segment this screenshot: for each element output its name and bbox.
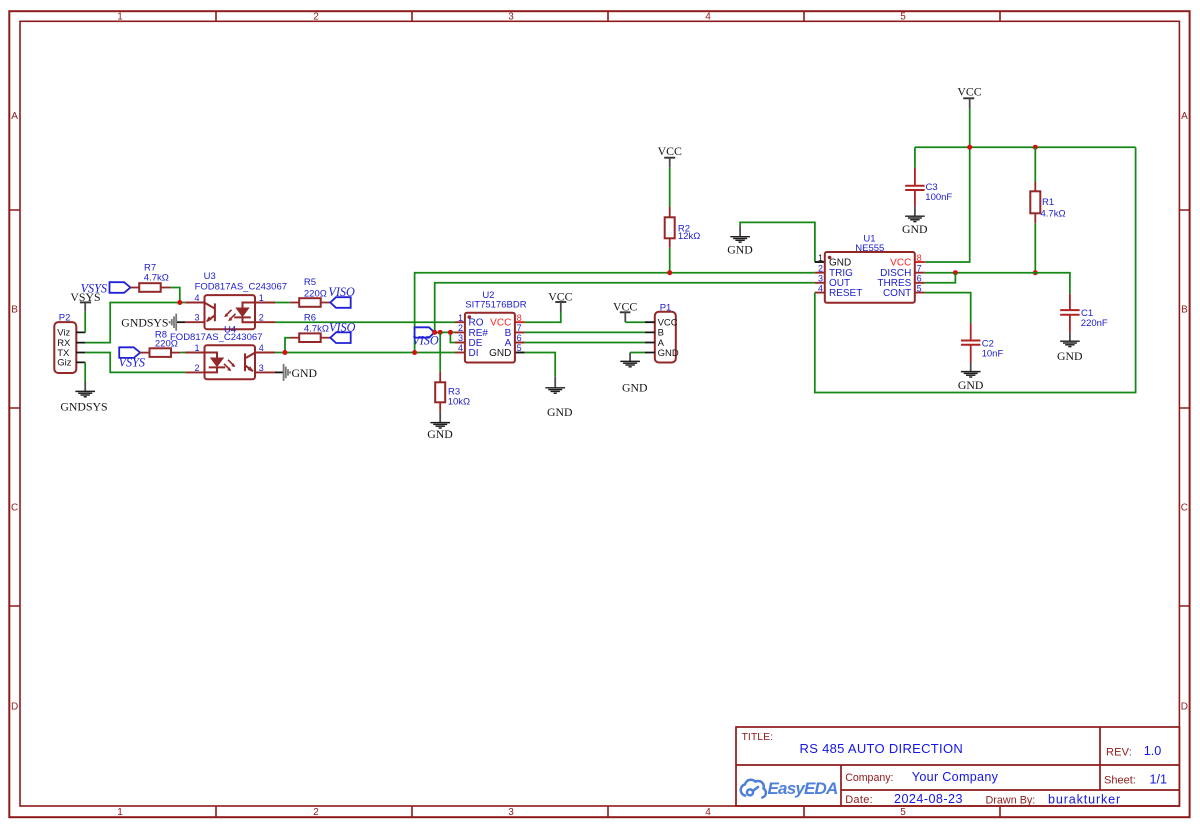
svg-text:5: 5 (517, 343, 522, 353)
svg-text:7: 7 (517, 323, 522, 333)
svg-text:4: 4 (458, 343, 463, 353)
row letters right (1181, 111, 1188, 713)
ground GND below U2 pin5 (545, 377, 573, 419)
wire U2 pin8 to VCC (525, 313, 561, 323)
svg-text:4: 4 (818, 283, 823, 293)
junction node R3 top (438, 330, 443, 335)
svg-text:VCC: VCC (548, 289, 572, 303)
power flag VCC at U2 (548, 289, 572, 312)
ground GND below C2 (958, 362, 984, 392)
wire TX to U4 pin2 (85, 353, 185, 373)
wire RX to node R7/U3 (85, 303, 180, 343)
svg-text:2024-08-23: 2024-08-23 (894, 792, 963, 806)
wire top bus (915, 146, 1136, 148)
wire GND flag to U1 pin1 (740, 222, 815, 262)
net flag VISO at U2 (412, 327, 439, 347)
svg-text:U3: U3 (204, 271, 216, 282)
svg-text:4.7kΩ: 4.7kΩ (1041, 208, 1066, 219)
wire U3 pin1 to R5 (275, 302, 290, 304)
junction node on DI line (412, 350, 417, 355)
power flag VCC top (957, 85, 981, 109)
svg-text:GND: GND (1057, 349, 1083, 363)
svg-text:R1: R1 (1042, 197, 1054, 208)
svg-text:REV:: REV: (1106, 746, 1132, 758)
svg-text:VCC: VCC (613, 299, 637, 313)
wire U4 pin4 node to R6 and DI (275, 338, 415, 353)
wire Giz to ground (84, 362, 86, 381)
svg-text:NE555: NE555 (855, 243, 884, 254)
wire top bus to R1 (1034, 147, 1036, 182)
svg-text:GND: GND (829, 257, 851, 268)
svg-text:GNDSYS: GNDSYS (121, 315, 168, 329)
svg-text:1: 1 (458, 313, 463, 323)
row letters left (11, 111, 18, 713)
wire VCC to P1 (625, 321, 645, 323)
wire node to U3 pin4 (180, 302, 185, 304)
ground flag GNDSYS at U3 pin3 (121, 314, 185, 331)
wire DISCH line to C1 (925, 273, 1070, 294)
wire R1 to DISCH line (1034, 223, 1036, 273)
svg-text:3: 3 (259, 363, 264, 373)
svg-text:B: B (11, 305, 18, 316)
wire RE# node down to R3 (439, 332, 441, 371)
svg-text:SIT75176BDR: SIT75176BDR (465, 299, 526, 310)
wire CONT to C2 (925, 293, 971, 324)
svg-text:GND: GND (292, 366, 318, 380)
svg-text:3: 3 (508, 807, 514, 818)
svg-text:Company:: Company: (845, 772, 893, 784)
wire R8 to U4 pin1 (180, 352, 185, 354)
svg-text:3: 3 (818, 274, 823, 284)
svg-text:3: 3 (508, 12, 514, 23)
svg-text:GND: GND (427, 427, 453, 441)
svg-text:VSYS: VSYS (119, 356, 145, 370)
svg-text:2: 2 (458, 323, 463, 333)
svg-text:4: 4 (259, 343, 264, 353)
svg-text:6: 6 (917, 274, 922, 284)
svg-text:VSYS: VSYS (81, 281, 107, 295)
svg-text:10nF: 10nF (982, 348, 1004, 359)
net flag VSYS at R8 (119, 347, 145, 369)
wire TRIG bus: U1 pin2 elbow down to DI line (415, 273, 815, 353)
svg-text:Sheet:: Sheet: (1104, 775, 1136, 787)
svg-text:RESET: RESET (829, 288, 862, 299)
svg-text:VISO: VISO (328, 285, 355, 299)
power flag VCC at P1 (613, 299, 637, 322)
power flag VSYS above P2 (70, 290, 100, 312)
svg-text:2: 2 (313, 807, 319, 818)
svg-text:1: 1 (194, 343, 199, 353)
svg-text:3: 3 (458, 333, 463, 343)
ground GND below P1 (620, 353, 648, 395)
resistor R2 (665, 207, 675, 248)
svg-text:P1: P1 (660, 302, 672, 313)
wire RESET loop (815, 147, 1136, 392)
svg-text:Date:: Date: (845, 794, 873, 806)
junction node VISO/OUT on RE# (432, 330, 437, 335)
svg-text:1/1: 1/1 (1150, 773, 1168, 787)
resistor R6 (290, 333, 330, 342)
IC U1 NE555 (815, 252, 925, 303)
capacitor C3 (905, 168, 924, 207)
svg-text:EasyEDA: EasyEDA (768, 779, 839, 798)
svg-text:8: 8 (517, 313, 522, 323)
ground GND flag left of U1 (727, 226, 753, 257)
column numbers bottom (117, 807, 906, 818)
optocoupler U4 (185, 345, 275, 379)
ground GNDSYS below P2 (60, 382, 107, 414)
svg-text:2: 2 (313, 12, 319, 23)
wire OUT bus: U1 pin3 elbow down to RE# line (435, 283, 815, 333)
svg-text:TITLE:: TITLE: (742, 731, 774, 743)
svg-text:GND: GND (727, 243, 753, 257)
svg-text:P2: P2 (59, 313, 71, 324)
svg-text:220Ω: 220Ω (304, 288, 327, 299)
wire U2 B to P1 (525, 331, 645, 333)
svg-text:4: 4 (705, 807, 711, 818)
svg-text:RS 485 AUTO DIRECTION: RS 485 AUTO DIRECTION (800, 741, 964, 756)
svg-text:2: 2 (818, 264, 823, 274)
svg-text:7: 7 (917, 264, 922, 274)
IC U2 SIT75176BDR (455, 313, 525, 363)
svg-text:4.7kΩ: 4.7kΩ (304, 324, 329, 335)
wire U2 pin5 to ground (525, 353, 555, 377)
connector P1 (645, 312, 679, 363)
svg-text:1.0: 1.0 (1144, 744, 1162, 758)
junction node R2/TRIG (667, 270, 672, 275)
svg-text:1: 1 (117, 807, 123, 818)
svg-text:GND: GND (622, 380, 648, 394)
svg-text:VISO: VISO (329, 320, 356, 334)
svg-text:R6: R6 (304, 312, 316, 323)
junction node DISCH/THRES (953, 270, 958, 275)
svg-text:4.7kΩ: 4.7kΩ (144, 273, 169, 284)
svg-text:1: 1 (818, 253, 823, 263)
wire P1 GND pin to ground (630, 352, 645, 354)
svg-text:DI: DI (469, 348, 479, 359)
EasyEDA logo (741, 779, 838, 798)
junction node DE tie (448, 330, 453, 335)
wire VCC down to top bus and U1 pin8 (925, 109, 970, 262)
wire Viz to VSYS flag (84, 312, 86, 333)
svg-text:GND: GND (489, 348, 511, 359)
svg-text:B: B (1181, 305, 1188, 316)
svg-text:GND: GND (547, 405, 573, 419)
ground GND below R3 (427, 412, 453, 441)
junction node R1/DISCH (1033, 270, 1038, 275)
svg-text:4: 4 (194, 293, 199, 303)
svg-text:2: 2 (259, 313, 264, 323)
svg-text:C: C (1181, 503, 1188, 514)
wire VCC to R2 (669, 167, 671, 207)
connector P2 (54, 322, 85, 373)
power flag VCC at R2 (658, 144, 682, 167)
junction node VCC/top bus (967, 145, 972, 150)
svg-text:Drawn By:: Drawn By: (986, 794, 1036, 806)
svg-text:Your Company: Your Company (912, 770, 999, 784)
svg-text:D: D (11, 702, 18, 713)
svg-text:CONT: CONT (883, 288, 911, 299)
capacitor C1 (1060, 294, 1079, 333)
resistor R3 (435, 372, 445, 412)
svg-text:1: 1 (259, 293, 264, 303)
svg-text:FOD817AS_C243067: FOD817AS_C243067 (170, 332, 262, 343)
svg-text:A: A (1181, 111, 1188, 122)
svg-text:GND: GND (902, 222, 928, 236)
svg-text:5: 5 (900, 12, 906, 23)
net flag VISO at R5 (328, 285, 355, 308)
svg-text:4: 4 (705, 12, 711, 23)
net flag VSYS at R7 (81, 281, 131, 295)
ground GND below C1 (1057, 333, 1083, 363)
title block border (736, 727, 1179, 806)
junction node R1/top bus (1033, 145, 1038, 150)
svg-text:5: 5 (900, 807, 906, 818)
svg-text:VCC: VCC (957, 85, 981, 99)
svg-text:100nF: 100nF (925, 192, 952, 203)
junction node R7/RX/U3.4 (177, 300, 182, 305)
resistor R7 (131, 283, 171, 292)
ground flag GND at U4 pin3 (275, 364, 318, 381)
svg-text:Giz: Giz (57, 358, 71, 369)
wire RE#/DE net (435, 332, 455, 342)
svg-text:VCC: VCC (890, 257, 911, 268)
svg-text:220nF: 220nF (1081, 318, 1108, 329)
svg-text:VISO: VISO (412, 334, 439, 348)
net flag VISO at R6 (329, 320, 356, 343)
svg-text:8: 8 (917, 253, 922, 263)
wire U3 pin2 to U2 pin1 (RO) (275, 321, 455, 323)
junction node U4.4/R6/DI (282, 350, 287, 355)
svg-text:3: 3 (194, 313, 199, 323)
svg-text:VCC: VCC (658, 144, 682, 158)
svg-text:A: A (11, 111, 18, 122)
svg-text:FOD817AS_C243067: FOD817AS_C243067 (195, 281, 287, 292)
svg-text:R5: R5 (304, 277, 316, 288)
wire top bus to C3 (914, 147, 916, 168)
capacitor C2 (961, 323, 980, 362)
svg-text:GND: GND (658, 348, 679, 359)
svg-text:D: D (1181, 702, 1188, 713)
wire R7 to node (171, 288, 180, 303)
wire R2 to TRIG line (669, 248, 671, 273)
svg-text:10kΩ: 10kΩ (448, 397, 470, 408)
wire THRES up to DISCH (925, 273, 956, 283)
optocoupler U3 (185, 295, 275, 329)
ground GND below C3 (902, 206, 928, 236)
svg-text:C: C (11, 503, 18, 514)
svg-text:6: 6 (517, 333, 522, 343)
svg-text:GNDSYS: GNDSYS (60, 399, 107, 413)
svg-text:2: 2 (194, 363, 199, 373)
svg-text:5: 5 (917, 283, 922, 293)
wire DI line from node to U2 pin4 (415, 352, 455, 354)
resistor R1 (1030, 182, 1040, 223)
column numbers top (117, 12, 906, 23)
svg-text:burakturker: burakturker (1048, 792, 1121, 806)
resistor R8 (140, 348, 180, 357)
resistor R5 (290, 298, 331, 307)
wire U2 A to P1 (525, 342, 645, 344)
svg-text:1: 1 (117, 12, 123, 23)
svg-text:12kΩ: 12kΩ (678, 231, 700, 242)
svg-text:GND: GND (958, 378, 984, 392)
